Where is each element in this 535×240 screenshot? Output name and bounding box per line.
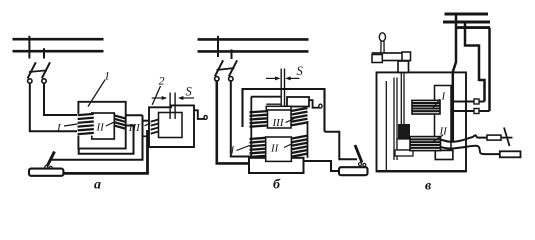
svg-text:а: а xyxy=(94,177,101,192)
svg-text:II: II xyxy=(96,122,106,134)
svg-text:в: в xyxy=(425,179,432,194)
svg-text:2: 2 xyxy=(159,74,165,88)
svg-text:1: 1 xyxy=(104,69,110,83)
svg-text:б: б xyxy=(273,178,281,193)
svg-text:II: II xyxy=(439,126,449,138)
svg-text:S: S xyxy=(186,84,193,98)
svg-text:III: III xyxy=(272,117,285,129)
svg-text:II: II xyxy=(270,143,280,155)
svg-text:S: S xyxy=(297,64,304,78)
svg-text:III: III xyxy=(128,122,141,134)
